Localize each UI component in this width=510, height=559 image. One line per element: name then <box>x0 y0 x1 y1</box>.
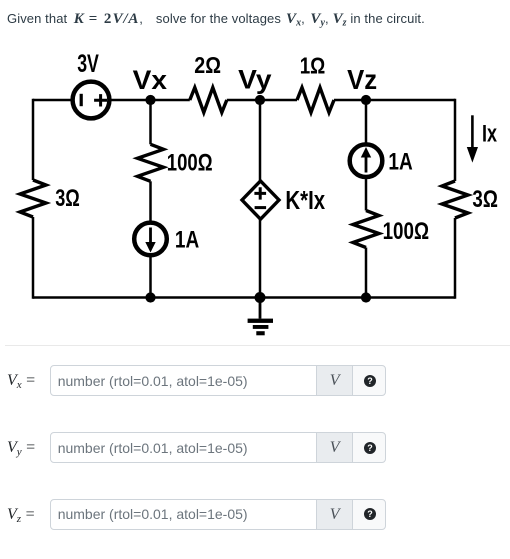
wire I2 to R6 <box>365 177 368 211</box>
wire I1 to bottom <box>149 255 152 297</box>
wire: R2 to node Vz and top-right corner <box>334 99 455 102</box>
ground bar 3 <box>256 331 264 335</box>
svg-text:Vx: Vx <box>133 65 168 95</box>
left wire upper segment <box>32 99 35 180</box>
wire R6 to bottom <box>365 248 368 298</box>
current arrow Ix <box>471 115 474 150</box>
svg-text:Vz: Vz <box>347 64 377 95</box>
separator line <box>5 345 510 346</box>
node Vx dot <box>145 95 155 105</box>
left wire lower segment <box>32 217 35 299</box>
svg-text:?: ? <box>367 509 373 519</box>
wire: source to node Vx <box>111 99 189 102</box>
right wire lower segment <box>454 218 457 299</box>
resistor R5 100ohm <box>138 144 164 181</box>
svg-text:3Ω: 3Ω <box>55 185 80 212</box>
Vy branch: node to dependent source <box>259 100 262 181</box>
ground stem <box>259 298 262 319</box>
svg-text:3V: 3V <box>77 50 99 78</box>
svg-text:Vy: Vy <box>238 65 272 95</box>
ground bar 2 <box>253 325 269 329</box>
svg-text:?: ? <box>367 443 373 453</box>
Vz branch: node to current source I2 <box>365 100 368 144</box>
wire: R1 to node Vy <box>227 99 297 102</box>
U1 minus mark <box>255 206 267 209</box>
svg-text:3Ω: 3Ω <box>472 186 498 213</box>
svg-text:K*Ix: K*Ix <box>285 187 325 215</box>
dependent source U1 K*Ix diamond <box>242 181 279 219</box>
Vx branch: node to R5 <box>149 100 152 144</box>
svg-text:Ix: Ix <box>482 120 497 147</box>
resistor R3 3ohm left <box>20 180 46 217</box>
current source I2 1A (up) <box>350 144 383 177</box>
ground node dot <box>255 292 266 303</box>
answer row Vx <box>7 373 35 393</box>
answer row Vz <box>7 507 35 527</box>
current source I1 1A (down) <box>134 223 167 256</box>
svg-text:100Ω: 100Ω <box>167 150 213 177</box>
answer row Vy <box>7 440 35 460</box>
voltage source V1 3V <box>73 82 110 119</box>
resistor R4 3ohm right <box>442 181 468 218</box>
bottom node dot under Vx branch <box>145 292 155 302</box>
V1 minus terminal mark <box>80 94 83 106</box>
wire top-left: left corner to 3V source <box>33 99 71 102</box>
svg-text:1A: 1A <box>388 148 412 175</box>
svg-text:?: ? <box>367 376 373 386</box>
wire R5 to current source I1 <box>149 181 152 222</box>
svg-text:1A: 1A <box>175 226 199 253</box>
right wire upper segment <box>454 99 457 181</box>
node Vy dot <box>255 95 265 105</box>
V1 plus terminal mark <box>94 94 107 106</box>
wire dependent source to bottom/ground node <box>259 219 262 298</box>
node Vz dot <box>361 95 371 105</box>
U1 plus mark <box>254 187 266 199</box>
question stem text <box>7 10 425 32</box>
svg-text:100Ω: 100Ω <box>383 218 430 245</box>
bottom wire <box>33 296 455 299</box>
resistor R1 2ohm <box>190 88 227 113</box>
ground bar 1 <box>248 319 273 323</box>
svg-text:2Ω: 2Ω <box>194 52 221 78</box>
circuit schematic <box>0 0 510 350</box>
resistor R2 1ohm <box>297 88 334 113</box>
svg-text:1Ω: 1Ω <box>300 52 326 78</box>
resistor R6 100ohm right <box>353 211 379 248</box>
bottom node dot under Vz branch <box>361 292 371 302</box>
